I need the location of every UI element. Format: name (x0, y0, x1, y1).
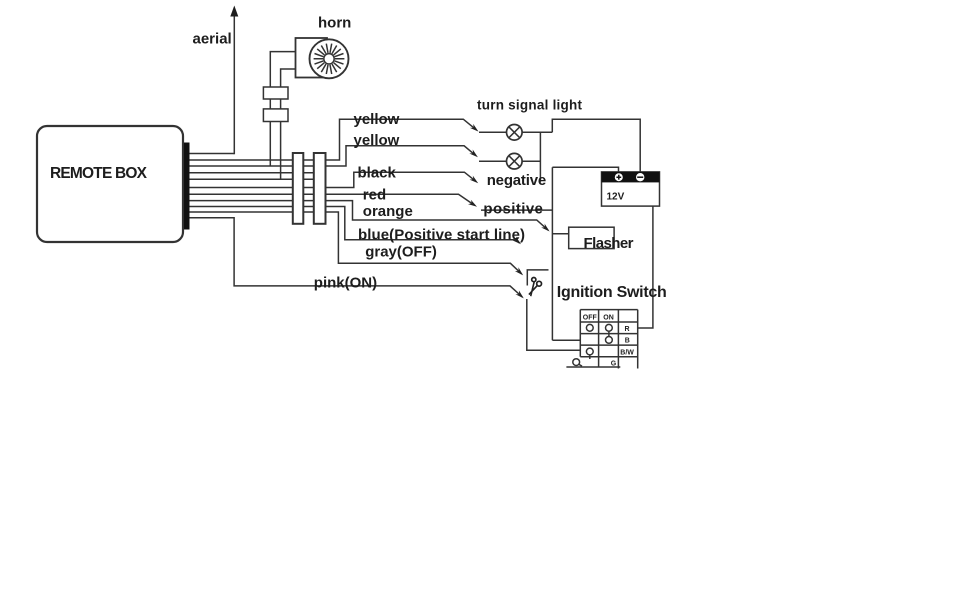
wire lamps to battery minus (552, 119, 640, 172)
flasher stub (552, 233, 568, 235)
wire blue (190, 207, 520, 244)
arrowhead red (468, 200, 477, 207)
battery 12V body (602, 172, 660, 206)
lamp L1 lead right (522, 131, 552, 133)
battery top bar (602, 172, 660, 183)
connector bar on remote box (184, 143, 190, 230)
arrowhead orange (541, 224, 549, 232)
svg-text:R: R (625, 326, 630, 333)
harness connector bar 2 (314, 153, 326, 224)
contact BW stem (589, 355, 591, 359)
svg-text:yellow: yellow (354, 111, 400, 128)
svg-text:blue(Positive start line): blue(Positive start line) (358, 227, 525, 244)
contact R-ON (606, 324, 613, 331)
svg-text:B: B (625, 338, 630, 345)
svg-text:REMOTE BOX: REMOTE BOX (50, 165, 148, 182)
switch table frame (580, 310, 637, 369)
wire yellow 2 (190, 146, 475, 166)
svg-text:red: red (363, 187, 386, 204)
svg-text:gray(OFF): gray(OFF) (365, 244, 437, 261)
contact BW-OFF (586, 348, 593, 355)
svg-text:orange: orange (363, 203, 413, 220)
svg-text:OFF: OFF (583, 314, 598, 321)
remote box U1 (37, 126, 183, 242)
svg-text:aerial: aerial (193, 31, 232, 48)
battery positive riser (552, 167, 618, 172)
horn body (296, 38, 328, 78)
wire black (190, 172, 475, 187)
svg-text:G: G (611, 361, 617, 368)
wire pink (190, 218, 523, 297)
arrowhead black (470, 176, 479, 184)
lamp L2 lead left (479, 160, 506, 162)
svg-text:turn signal light: turn signal light (477, 98, 583, 113)
wire stub 5 (190, 178, 327, 180)
wire lamps to negative (539, 132, 541, 181)
arrowhead pink (515, 290, 523, 298)
harness connector bar 1 (293, 153, 304, 224)
svg-text:B/W: B/W (620, 350, 634, 357)
lamp L1 lead left (479, 131, 506, 133)
cut line lower to switch (527, 299, 581, 350)
horn wire A upper (270, 52, 295, 87)
aerial line (233, 14, 235, 154)
svg-text:Flasher: Flasher (584, 235, 634, 252)
wire positive strike (481, 209, 552, 211)
positive trunk vertical (551, 167, 553, 340)
lamp L2 (507, 153, 523, 169)
wire orange (190, 201, 549, 231)
svg-text:positive: positive (483, 200, 543, 217)
link R-B (608, 331, 610, 336)
wire positive trunk to switch B (552, 339, 580, 341)
battery plus terminal (615, 173, 623, 181)
arrowhead yellow 2 (469, 150, 478, 158)
wire aerial stub (190, 153, 235, 155)
horn connector block 1 (263, 87, 288, 99)
svg-text:black: black (358, 165, 397, 182)
horn wire A mid (269, 99, 271, 109)
horn wire B upper (281, 69, 296, 87)
contact B-ON (606, 337, 613, 344)
svg-text:yellow: yellow (354, 132, 400, 149)
wire stub 4 (190, 172, 327, 174)
arrowhead yellow 1 (470, 124, 479, 132)
aerial arrowhead (230, 6, 238, 17)
switch table bottom line (566, 366, 620, 368)
lamp L2 lead right (522, 160, 540, 162)
svg-text:negative: negative (487, 172, 547, 189)
wire yellow 1 (190, 119, 476, 160)
svg-text:Ignition Switch: Ignition Switch (557, 284, 667, 301)
flasher box (569, 227, 614, 248)
lamp L1 (507, 125, 523, 141)
arrowhead gray (515, 267, 523, 275)
scissors (529, 278, 542, 297)
arrowhead blue (513, 236, 522, 244)
horn wire B lower (280, 122, 282, 180)
svg-text:ON: ON (603, 314, 614, 321)
contact G (573, 359, 580, 366)
wire battery to switch R (638, 206, 653, 328)
battery minus terminal (636, 173, 644, 181)
svg-text:horn: horn (318, 15, 351, 32)
wire red (190, 194, 474, 204)
svg-text:pink(ON): pink(ON) (314, 275, 377, 292)
gray cut bracket top (527, 270, 548, 286)
svg-text:12V: 12V (607, 192, 625, 203)
horn wire A lower (269, 122, 271, 167)
horn wire B mid (280, 99, 282, 109)
horn connector block 2 (263, 109, 288, 122)
contact R-OFF (586, 324, 593, 331)
horn bell circle (310, 39, 349, 78)
wire gray (190, 212, 522, 274)
